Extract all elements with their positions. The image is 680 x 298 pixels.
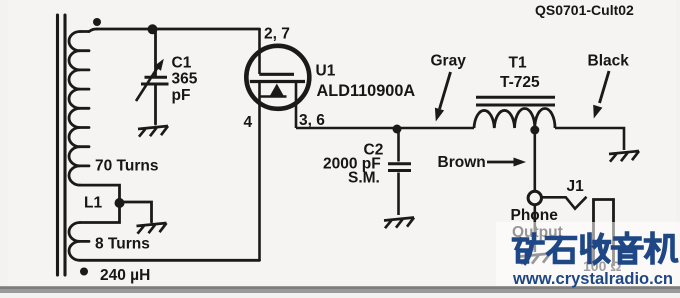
node coil top phasing dot [93, 18, 101, 26]
node junction C1/rail [148, 24, 158, 34]
wire T1 tap down to jack [533, 130, 536, 191]
svg-text:U1: U1 [316, 63, 336, 80]
svg-text:70 Turns: 70 Turns [95, 158, 158, 175]
wire coil top to rail [89, 29, 97, 32]
svg-text:240 µH: 240 µH [100, 267, 150, 284]
node junction T1 tap [530, 126, 539, 135]
node junction tap [115, 198, 125, 208]
wire bottom rail [80, 259, 260, 262]
op-amp U1 MOSFET ALD110900A [246, 29, 309, 260]
connector J1 phone jack [528, 191, 541, 204]
svg-text:L1: L1 [84, 195, 102, 212]
svg-text:Black: Black [588, 53, 630, 70]
svg-text:ALD110900A: ALD110900A [317, 82, 416, 100]
ground (jack) [520, 254, 550, 265]
channel line [250, 80, 305, 83]
wire C1 upper lead [154, 29, 157, 76]
svg-text:T1: T1 [509, 55, 527, 72]
wire C1 lower lead [154, 85, 157, 124]
svg-text:4: 4 [244, 114, 253, 131]
gate lead down to bottom rail [258, 82, 261, 261]
node coil bottom phasing dot [80, 268, 88, 276]
bracket [260, 95, 287, 98]
char ji [646, 234, 676, 263]
char shou [583, 235, 610, 263]
char kuang [514, 235, 543, 263]
svg-text:QS0701-Cult02: QS0701-Cult02 [535, 2, 634, 18]
watermark translucent backdrop [496, 222, 680, 286]
wire main output rail [296, 127, 474, 130]
char shi [547, 238, 575, 262]
wire drain lead [258, 29, 261, 74]
substrate arrow [270, 84, 284, 97]
wire T1 right to ground [555, 128, 624, 150]
coil L1 core lines [58, 15, 66, 275]
svg-text:T-725: T-725 [500, 74, 540, 91]
ground (tap) [137, 223, 167, 234]
drain bar [259, 73, 294, 76]
svg-text:Gray: Gray [431, 53, 467, 70]
wire tap to ground [120, 202, 152, 222]
wire top rail [97, 28, 260, 31]
winding [474, 108, 555, 128]
svg-text:J1: J1 [567, 178, 585, 195]
coil L1 winding 70-turn section [80, 32, 89, 166]
wire jack sleeve to ground [533, 205, 536, 252]
headphone plug outline [594, 200, 614, 267]
ground (C1) [138, 126, 168, 137]
svg-text:2, 7: 2, 7 [264, 26, 290, 43]
capacitor C2 [388, 129, 411, 215]
coil L1 winding 8-turn section [69, 223, 80, 261]
watermark Chinese characters (drawn strokes) [514, 234, 676, 263]
svg-text:3, 6: 3, 6 [299, 112, 325, 129]
ground (T1 right) [609, 151, 639, 162]
char yin [613, 234, 642, 263]
wire tap upper [80, 185, 120, 222]
bottom gray band [0, 286, 680, 293]
svg-text:www.crystalradio.cn: www.crystalradio.cn [512, 269, 673, 288]
svg-text:pF: pF [172, 87, 191, 104]
node junction C2 [393, 125, 402, 134]
transformer T1 [474, 97, 555, 128]
svg-text:Brown: Brown [438, 154, 486, 171]
source lead [295, 82, 298, 129]
svg-text:C1: C1 [172, 55, 192, 72]
ground (C2) [384, 218, 414, 229]
svg-text:8 Turns: 8 Turns [95, 236, 150, 253]
core bars [476, 96, 555, 99]
capacitor C1 [136, 65, 169, 102]
svg-text:365: 365 [172, 71, 198, 88]
svg-text:S.M.: S.M. [348, 170, 380, 187]
